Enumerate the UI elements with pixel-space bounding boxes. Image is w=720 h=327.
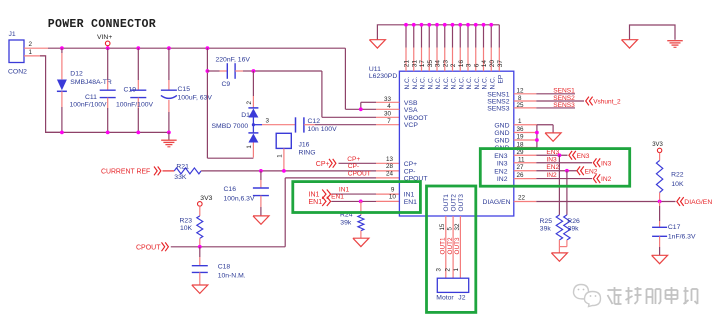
svg-text:IN1: IN1 (309, 192, 320, 199)
svg-text:R22: R22 (671, 172, 684, 179)
pin 30 VBOOT number (384, 111, 392, 118)
svg-text:100nF/100V: 100nF/100V (70, 101, 108, 108)
svg-text:9: 9 (391, 186, 395, 193)
resistor R22 10K (656, 160, 684, 201)
svg-text:30: 30 (384, 111, 392, 118)
svg-text:20: 20 (489, 60, 496, 68)
pin N.C. #31 of U11 (411, 23, 419, 90)
pin 36 GND wire (514, 126, 537, 133)
svg-text:36: 36 (517, 126, 525, 133)
ground symbol (earth bars) below C15 (161, 132, 177, 146)
svg-text:26: 26 (517, 172, 525, 179)
svg-text:32: 32 (454, 223, 461, 230)
svg-text:IN3: IN3 (601, 160, 612, 167)
node junction R23/C18 tap (198, 245, 202, 249)
pin N.C. #3 of U11 (466, 23, 474, 90)
svg-text:1: 1 (246, 145, 253, 149)
port IN2 (593, 174, 611, 183)
svg-text:CURRENT REF: CURRENT REF (101, 169, 150, 176)
svg-text:VSA: VSA (404, 107, 418, 114)
svg-text:DIAG/EN: DIAG/EN (684, 199, 712, 206)
pin N.C. #34 of U11 (435, 23, 443, 90)
svg-text:15: 15 (439, 223, 446, 230)
highlight box EN/IN (480, 149, 629, 187)
svg-text:SMBJ48A-TR: SMBJ48A-TR (70, 79, 112, 86)
pin 8 SENS2 wire to Vshunt_2 (514, 95, 584, 102)
power terminal 3V3 (left) (198, 195, 213, 216)
net label CP- and pin 28 (348, 163, 394, 170)
port IN3 (593, 158, 611, 167)
ground symbol below R25/R26 (551, 253, 567, 261)
jumper J16 RING (276, 133, 315, 171)
port IN1 / EN1 (309, 190, 331, 207)
pin 4 VSA wire (345, 103, 399, 111)
pin N.C. #14 of U11 (481, 23, 489, 90)
svg-text:EN1: EN1 (331, 194, 344, 201)
svg-text:OUT1: OUT1 (440, 237, 447, 254)
diode D12 (SMBJ48A-TR) (57, 48, 112, 132)
svg-text:16: 16 (458, 60, 465, 68)
svg-text:39k: 39k (540, 226, 552, 233)
node B junction at D1 top (252, 69, 256, 73)
wire: R25/R26 to ground (559, 240, 567, 253)
wire: R21 to CP- pin 28 (201, 170, 399, 172)
svg-text:3: 3 (266, 118, 270, 125)
pin EP #37 of U11 (497, 25, 505, 84)
pin 1 of J1 (24, 49, 46, 56)
pin N.C. #35 of U11 (427, 23, 435, 90)
svg-text:R26: R26 (567, 218, 580, 225)
svg-text:Vshunt_2: Vshunt_2 (593, 99, 621, 106)
resistor R23 10K (180, 216, 203, 239)
svg-text:100n,6.3V: 100n,6.3V (224, 195, 255, 202)
svg-text:27: 27 (517, 164, 525, 171)
svg-text:8: 8 (518, 95, 522, 102)
ground symbol below C16 (253, 216, 269, 224)
svg-text:3: 3 (466, 63, 473, 67)
svg-text:L6230PD: L6230PD (369, 73, 397, 80)
pin N.C. #21 of U11 (404, 23, 412, 90)
svg-text:1: 1 (453, 268, 460, 272)
svg-text:10: 10 (389, 194, 397, 201)
svg-text:6: 6 (473, 63, 480, 67)
svg-text:CP+: CP+ (316, 161, 330, 168)
svg-text:39k: 39k (568, 226, 580, 233)
wire: N.C. bus (377, 25, 499, 40)
svg-text:31: 31 (411, 60, 418, 68)
svg-text:10K: 10K (671, 181, 684, 188)
svg-text:2: 2 (246, 101, 253, 105)
svg-text:OUT3: OUT3 (458, 194, 465, 212)
svg-text:7: 7 (387, 118, 391, 125)
svg-text:IN3: IN3 (546, 156, 557, 163)
svg-text:RING: RING (299, 149, 316, 156)
svg-text:23: 23 (442, 60, 449, 68)
svg-text:R21: R21 (176, 164, 189, 171)
node: bus junction dots on VIN+ bus (60, 46, 209, 50)
svg-text:22: 22 (518, 195, 526, 202)
svg-text:SENS1: SENS1 (487, 91, 510, 98)
pin 27 EN2 wire (514, 164, 577, 173)
resistor R24 39k (340, 201, 364, 238)
svg-text:34: 34 (435, 60, 442, 68)
resistor R25 39k (540, 155, 563, 240)
port CPOUT (136, 242, 168, 251)
svg-text:3V3: 3V3 (200, 195, 212, 202)
ground symbol for GND pins (545, 133, 561, 141)
wire: CP+ to pin 13 (339, 156, 400, 163)
svg-text:GND: GND (494, 138, 509, 145)
svg-text:POWER CONNECTOR: POWER CONNECTOR (48, 18, 156, 31)
capacitor C11 100nF/100V (70, 48, 116, 132)
svg-text:N.C.: N.C. (404, 76, 411, 89)
port DIAG/EN (677, 197, 713, 206)
svg-text:5: 5 (447, 227, 454, 231)
pin 1 GND wire (514, 118, 553, 133)
svg-text:SENS3: SENS3 (487, 106, 510, 113)
capacitor C12 10n 100V (296, 117, 338, 133)
svg-text:VSB: VSB (404, 100, 418, 107)
svg-text:N.C.: N.C. (458, 76, 465, 89)
ground symbol (triangle) below N.C. bus left (369, 40, 385, 48)
watermark text (608, 287, 698, 304)
wire: CURRENT REF to R21 (163, 170, 175, 172)
pin 18 GND wire (514, 141, 537, 148)
svg-text:IN2: IN2 (546, 172, 557, 179)
svg-text:U11: U11 (369, 66, 381, 73)
pin names left side of U11 (404, 100, 428, 206)
pin 11 IN3 wire (514, 156, 592, 163)
svg-text:R23: R23 (180, 218, 193, 225)
svg-text:EN3: EN3 (577, 153, 590, 160)
svg-text:2: 2 (29, 41, 33, 48)
svg-text:EN3: EN3 (494, 153, 507, 160)
pin N.C. #6 of U11 (473, 23, 481, 90)
wire: node B to VBOOT (253, 71, 399, 117)
svg-text:3V3: 3V3 (652, 142, 663, 148)
svg-text:1nF/6.3V: 1nF/6.3V (668, 233, 696, 240)
pin 3 wire of D1 to C12 (253, 118, 295, 125)
node junction R24 tap (359, 200, 363, 204)
svg-text:11: 11 (518, 156, 525, 163)
pin 32 OUT3 wire to motor (454, 216, 461, 278)
svg-text:N.C.: N.C. (489, 76, 496, 89)
node junction J16 tap (282, 169, 286, 173)
svg-text:1: 1 (277, 154, 284, 158)
capacitor C19 100nF/100V (116, 48, 154, 132)
svg-text:IN1: IN1 (339, 186, 350, 193)
svg-text:Motor: Motor (436, 294, 454, 301)
svg-text:CP-: CP- (348, 163, 359, 170)
svg-text:CPOUT: CPOUT (348, 170, 371, 177)
pin 2 of J1 (24, 41, 48, 48)
net label CPOUT and pin 24 (348, 170, 394, 177)
wire: C12 to VCP pin 7 (304, 124, 400, 126)
svg-text:N.C.: N.C. (420, 76, 427, 89)
svg-text:19: 19 (517, 134, 525, 141)
svg-text:C18: C18 (218, 264, 231, 271)
pin N.C. #23 of U11 (442, 23, 450, 90)
svg-text:OUT2: OUT2 (451, 194, 458, 212)
svg-text:SENS1: SENS1 (553, 88, 575, 95)
wire: EN1 to pin 10 (331, 194, 399, 202)
svg-text:VIN+: VIN+ (97, 34, 112, 41)
svg-text:17: 17 (419, 60, 426, 68)
svg-text:SMBD 7000: SMBD 7000 (212, 123, 249, 130)
pin 5 OUT2 wire to motor (447, 216, 454, 278)
svg-text:N.C.: N.C. (482, 76, 489, 89)
op-amp U11 L6230PD chip body (369, 66, 514, 216)
svg-text:GND: GND (494, 122, 509, 129)
svg-text:1: 1 (29, 49, 33, 56)
svg-text:J16: J16 (299, 142, 310, 149)
svg-text:OUT3: OUT3 (454, 237, 461, 254)
svg-text:1: 1 (518, 118, 522, 125)
svg-text:C19: C19 (124, 87, 137, 94)
svg-text:33: 33 (384, 96, 392, 103)
pin 15 OUT1 wire to motor (439, 216, 446, 278)
pin 29 EN3 wire (514, 149, 568, 157)
svg-text:D12: D12 (70, 71, 83, 78)
ground bottom bus wire (46, 131, 169, 133)
ground symbol triangle top-right (622, 40, 638, 48)
svg-text:100nF/100V: 100nF/100V (116, 101, 154, 108)
wire: R23 to CPOUT wire (199, 238, 201, 246)
svg-text:3: 3 (435, 268, 442, 272)
svg-text:N.C.: N.C. (412, 76, 419, 89)
svg-text:CON2: CON2 (8, 69, 27, 76)
svg-text:21: 21 (404, 60, 411, 68)
ground symbol earth bars top-right (667, 41, 683, 48)
connector J2 Motor box (435, 268, 468, 302)
wire: VIN to C9/D1 column (207, 48, 253, 158)
svg-text:IN3: IN3 (497, 160, 508, 167)
svg-text:VCP: VCP (404, 122, 418, 129)
title POWER CONNECTOR (48, 18, 156, 31)
svg-text:EN2: EN2 (546, 164, 559, 171)
svg-text:EP: EP (498, 75, 505, 84)
highlight box IN1/EN1 (293, 182, 421, 213)
svg-text:35: 35 (427, 60, 434, 68)
pin names bottom OUT1 OUT2 OUT3 of U11 (443, 194, 465, 212)
highlight box OUT/Motor (427, 186, 476, 312)
pin names right side of U11 (483, 91, 511, 206)
svg-text:39k: 39k (340, 220, 352, 227)
resistor R26 39k (564, 171, 580, 240)
svg-text:10n 100V: 10n 100V (308, 126, 338, 133)
svg-text:CP-: CP- (404, 169, 416, 176)
pin 22 DIAG/EN wire (514, 195, 676, 202)
svg-text:C12: C12 (308, 118, 321, 125)
svg-text:CPOUT: CPOUT (136, 245, 161, 252)
wire: GND pins common vertical (535, 125, 539, 148)
svg-text:N.C.: N.C. (443, 76, 450, 89)
resistor R21 33K (174, 164, 201, 182)
capacitor C17 1nF/6.3V (652, 202, 696, 256)
port CURRENT REF (101, 167, 161, 176)
svg-text:25: 25 (517, 102, 525, 109)
svg-text:10K: 10K (180, 225, 193, 232)
svg-text:SENS2: SENS2 (553, 95, 575, 102)
pin N.C. #2 of U11 (450, 23, 458, 90)
svg-text:C16: C16 (224, 186, 237, 193)
svg-text:2: 2 (450, 63, 457, 67)
svg-text:N.C.: N.C. (427, 76, 434, 89)
node: ground bus junction dots (60, 131, 171, 135)
svg-text:2: 2 (444, 268, 451, 272)
svg-text:EN1: EN1 (404, 199, 417, 206)
top-right grounds bridge wire (630, 25, 676, 40)
svg-text:OUT2: OUT2 (447, 237, 454, 254)
port CP+ (316, 159, 336, 168)
svg-text:N.C.: N.C. (451, 76, 458, 89)
svg-text:C17: C17 (668, 224, 681, 231)
svg-text:VBOOT: VBOOT (404, 115, 428, 122)
capacitor C18 10n-N.M. (192, 247, 246, 285)
svg-text:24: 24 (386, 170, 394, 177)
watermark logo bubbles (574, 285, 601, 307)
svg-text:C15: C15 (178, 86, 191, 93)
pin 25 SENS3 wire (514, 102, 575, 109)
pin N.C. #17 of U11 (419, 23, 427, 90)
svg-text:4: 4 (387, 103, 391, 110)
ground symbol below C18 (192, 285, 208, 293)
svg-text:J2: J2 (458, 294, 465, 301)
svg-text:N.C.: N.C. (435, 76, 442, 89)
svg-text:C9: C9 (222, 81, 231, 88)
ground symbol below R24 (353, 238, 369, 246)
pin 26 IN2 wire (514, 172, 592, 179)
svg-text:CP+: CP+ (404, 161, 417, 168)
power terminal VIN+ (97, 34, 112, 48)
svg-text:R25: R25 (540, 218, 553, 225)
svg-text:J1: J1 (9, 31, 16, 38)
pin 7 VCP number (387, 118, 391, 125)
svg-text:220nF, 16V: 220nF, 16V (216, 57, 251, 64)
svg-text:37: 37 (497, 60, 504, 68)
svg-text:C11: C11 (85, 94, 97, 101)
wire: VIN+ top power bus (48, 48, 345, 109)
svg-text:IN2: IN2 (601, 176, 612, 183)
port EN2 (577, 166, 598, 175)
svg-text:CP+: CP+ (347, 156, 360, 163)
pin 33 VSB wire (361, 96, 400, 110)
svg-text:28: 28 (386, 163, 394, 170)
svg-text:13: 13 (386, 156, 394, 163)
svg-text:EN1: EN1 (309, 199, 323, 206)
svg-text:12: 12 (517, 88, 525, 95)
svg-text:N.C.: N.C. (466, 76, 473, 89)
capacitor C15 100uF/63V (polarized) (161, 48, 212, 132)
pin 12 SENS1 wire (514, 88, 575, 95)
capacitor C9 220nF 16V (207, 57, 253, 89)
capacitor C16 100n,6.3V (224, 171, 269, 216)
pin N.C. #16 of U11 (458, 23, 466, 90)
svg-text:IN2: IN2 (497, 176, 508, 183)
svg-text:DIAG/EN: DIAG/EN (483, 199, 511, 206)
pin 19 GND wire (514, 134, 537, 141)
svg-text:GND: GND (494, 130, 509, 137)
ground symbol below C17 (652, 255, 668, 263)
wire: CPOUT net (171, 178, 400, 247)
node junction C16 tap (259, 169, 263, 173)
node junction R22/C17 on DIAG/EN (658, 200, 662, 204)
wire: J1 pin1 to ground bus (40, 56, 62, 132)
svg-text:33K: 33K (174, 174, 187, 181)
diode D1 SMBD 7000 (dual) (212, 71, 259, 158)
node A junction at C9 left (206, 69, 210, 73)
connector J1 box (8, 31, 27, 76)
pin N.C. #20 of U11 (489, 23, 497, 90)
svg-text:SENS3: SENS3 (553, 102, 575, 109)
svg-text:N.C.: N.C. (474, 76, 481, 89)
port Vshunt_2 (586, 97, 621, 106)
svg-text:14: 14 (481, 60, 488, 68)
wire: IN1 to pin 9 (331, 186, 399, 194)
svg-text:IN1: IN1 (404, 192, 415, 199)
svg-text:10n-N.M.: 10n-N.M. (218, 272, 246, 279)
power terminal 3V3 (right) (652, 142, 663, 161)
port EN3 (569, 151, 590, 160)
svg-text:D1: D1 (241, 112, 250, 119)
svg-text:OUT1: OUT1 (443, 194, 450, 212)
svg-text:EN2: EN2 (494, 168, 507, 175)
